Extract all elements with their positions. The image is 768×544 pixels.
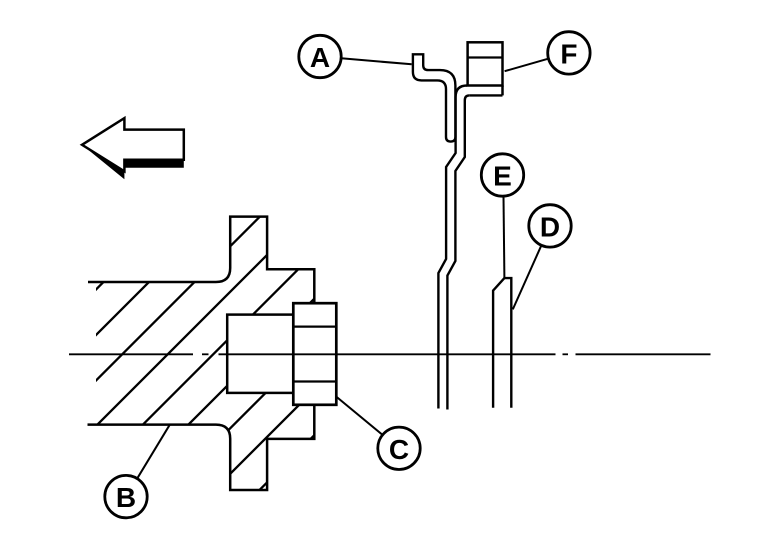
callout circle B <box>105 475 147 517</box>
callout circle F <box>548 32 590 74</box>
harness strip left edge <box>438 86 467 409</box>
hatching of shaft/flange section <box>0 210 540 495</box>
svg-text:F: F <box>560 38 577 69</box>
hub rectangle <box>227 315 293 393</box>
plate D <box>493 278 511 408</box>
direction arrow <box>82 118 184 171</box>
leader F <box>505 59 549 72</box>
leader C <box>336 397 382 435</box>
callout circle A <box>299 35 341 77</box>
leader D <box>513 245 542 309</box>
svg-text:A: A <box>310 42 330 73</box>
block F cap line <box>468 56 503 58</box>
crankshaft/flange section outline B <box>88 217 315 490</box>
sensor block F <box>468 42 503 85</box>
flange bottom line under F <box>469 94 502 96</box>
center line <box>69 353 711 355</box>
svg-text:C: C <box>389 434 409 465</box>
leader A <box>341 58 412 64</box>
block C internal lines <box>293 325 336 327</box>
bolt block C <box>293 303 336 405</box>
svg-text:E: E <box>493 161 512 192</box>
callout circle D <box>529 205 571 247</box>
callout circle C <box>378 427 420 469</box>
bracket strip A (hook) <box>413 54 456 141</box>
svg-text:D: D <box>540 211 560 242</box>
leader B <box>137 425 170 479</box>
leader E <box>503 196 506 278</box>
block F right edge extension <box>501 86 504 96</box>
callout circle E <box>481 154 523 196</box>
harness strip right edge <box>447 95 469 409</box>
arrow shadow <box>82 126 184 179</box>
svg-text:B: B <box>116 482 136 513</box>
